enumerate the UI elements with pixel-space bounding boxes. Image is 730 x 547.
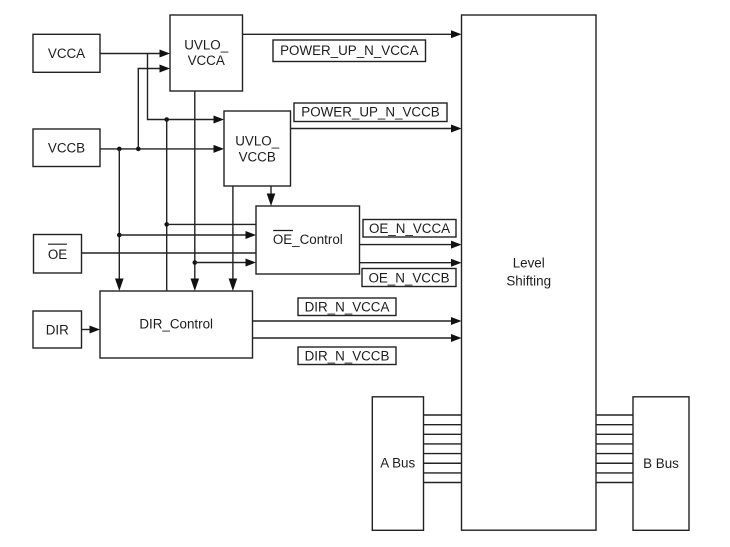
wire DIR_Control to Level Shifting (DIR_N_VCCB) [253,334,462,342]
svg-text:DIR_N_VCCA: DIR_N_VCCA [305,300,390,315]
wire VCCB branch down to DIR_Control top [115,149,124,291]
svg-text:A Bus: A Bus [380,456,415,471]
block Level Shifting [462,15,597,530]
net label DIR_N_VCCA [298,298,396,316]
svg-text:Shifting: Shifting [506,274,551,289]
junction dot VCCB branch at y235 [117,233,122,238]
wire VCCA to UVLO_VCCA input 1 [100,50,170,58]
wire DIR to DIR_Control [82,326,101,334]
junction dot VCCB at x138 [136,147,141,152]
svg-text:DIR_N_VCCB: DIR_N_VCCB [305,349,390,364]
wire POWER_UP_N_VCCA to OE_Control [195,259,256,267]
junction dot POWER_UP_N_VCCA branch at y262.5 [193,260,198,265]
junction dot VCCA branch at y224.4 [164,222,169,227]
wire UVLO_VCCB bottom to DIR_Control top [229,186,238,291]
svg-text:OE: OE [48,247,67,262]
block VCCB [33,129,100,167]
net label OE_N_VCCA [363,220,456,238]
wire OE_Control to Level Shifting (OE_N_VCCA) [360,241,462,249]
wire DIR_Control to Level Shifting (DIR_N_VCCA) [253,317,462,325]
svg-text:Level: Level [513,256,545,271]
net label OE_N_VCCB [362,269,456,287]
svg-text:POWER_UP_N_VCCA: POWER_UP_N_VCCA [280,43,418,58]
wire VCCB to UVLO_VCCB input 2 [100,145,224,153]
svg-text:UVLO_: UVLO_ [184,37,228,52]
junction dot on VCCA branch at x166.7 [164,117,169,122]
wire VCCB to OE_Control [119,231,256,239]
block VCCA [33,34,100,72]
net label DIR_N_VCCB [298,347,396,365]
bus wires A Bus to Level Shifting [424,415,462,483]
svg-text:VCCB: VCCB [48,140,85,155]
wire VCCA to OE_Control (plain) [167,223,256,225]
block OE_Control [256,206,360,274]
block A Bus [372,397,423,531]
svg-text:POWER_UP_N_VCCB: POWER_UP_N_VCCB [301,104,439,119]
wire UVLO_VCCB bottom to OE_Control top [267,186,276,206]
svg-text:OE_N_VCCB: OE_N_VCCB [368,270,449,285]
net label POWER_UP_N_VCCB [294,103,447,122]
svg-text:VCCB: VCCB [239,150,276,165]
svg-text:OE_N_VCCA: OE_N_VCCA [369,221,450,236]
net label POWER_UP_N_VCCA [273,40,426,62]
svg-text:DIR_Control: DIR_Control [139,317,213,332]
bus wires Level Shifting to B Bus [596,415,633,483]
wire UVLO_VCCA to Level Shifting (POWER_UP_N_VCCA) [243,30,462,38]
wire VCCB branch up to UVLO_VCCA input 2 [138,65,170,149]
wire UVLO_VCCA bottom to DIR_Control top [191,91,200,291]
wire OE_Control to Level Shifting (OE_N_VCCB) [360,259,462,267]
block UVLO_VCCB U2 [224,111,291,186]
block DIR [33,311,82,348]
svg-text:OE_Control: OE_Control [273,232,343,247]
svg-text:VCCA: VCCA [48,46,85,61]
wire OE to OE_Control (plain) [82,252,257,254]
svg-text:UVLO_: UVLO_ [235,134,279,149]
junction dot VCCB at x119.3 [117,147,122,152]
svg-text:DIR: DIR [46,322,69,337]
block UVLO_VCCA U1 [170,15,243,91]
svg-text:VCCA: VCCA [188,53,225,68]
svg-text:B Bus: B Bus [643,456,679,471]
block OE (active-low) [34,235,82,274]
block DIR_Control [100,291,253,358]
wire VCCA branch down to OE_Control and DIR_Control (vertical x166.7) [166,120,168,292]
wire VCCA branch down to UVLO_VCCB input 1 [148,54,225,124]
wire UVLO_VCCB to Level Shifting (POWER_UP_N_VCCB) [291,125,462,133]
block B Bus [633,397,689,531]
